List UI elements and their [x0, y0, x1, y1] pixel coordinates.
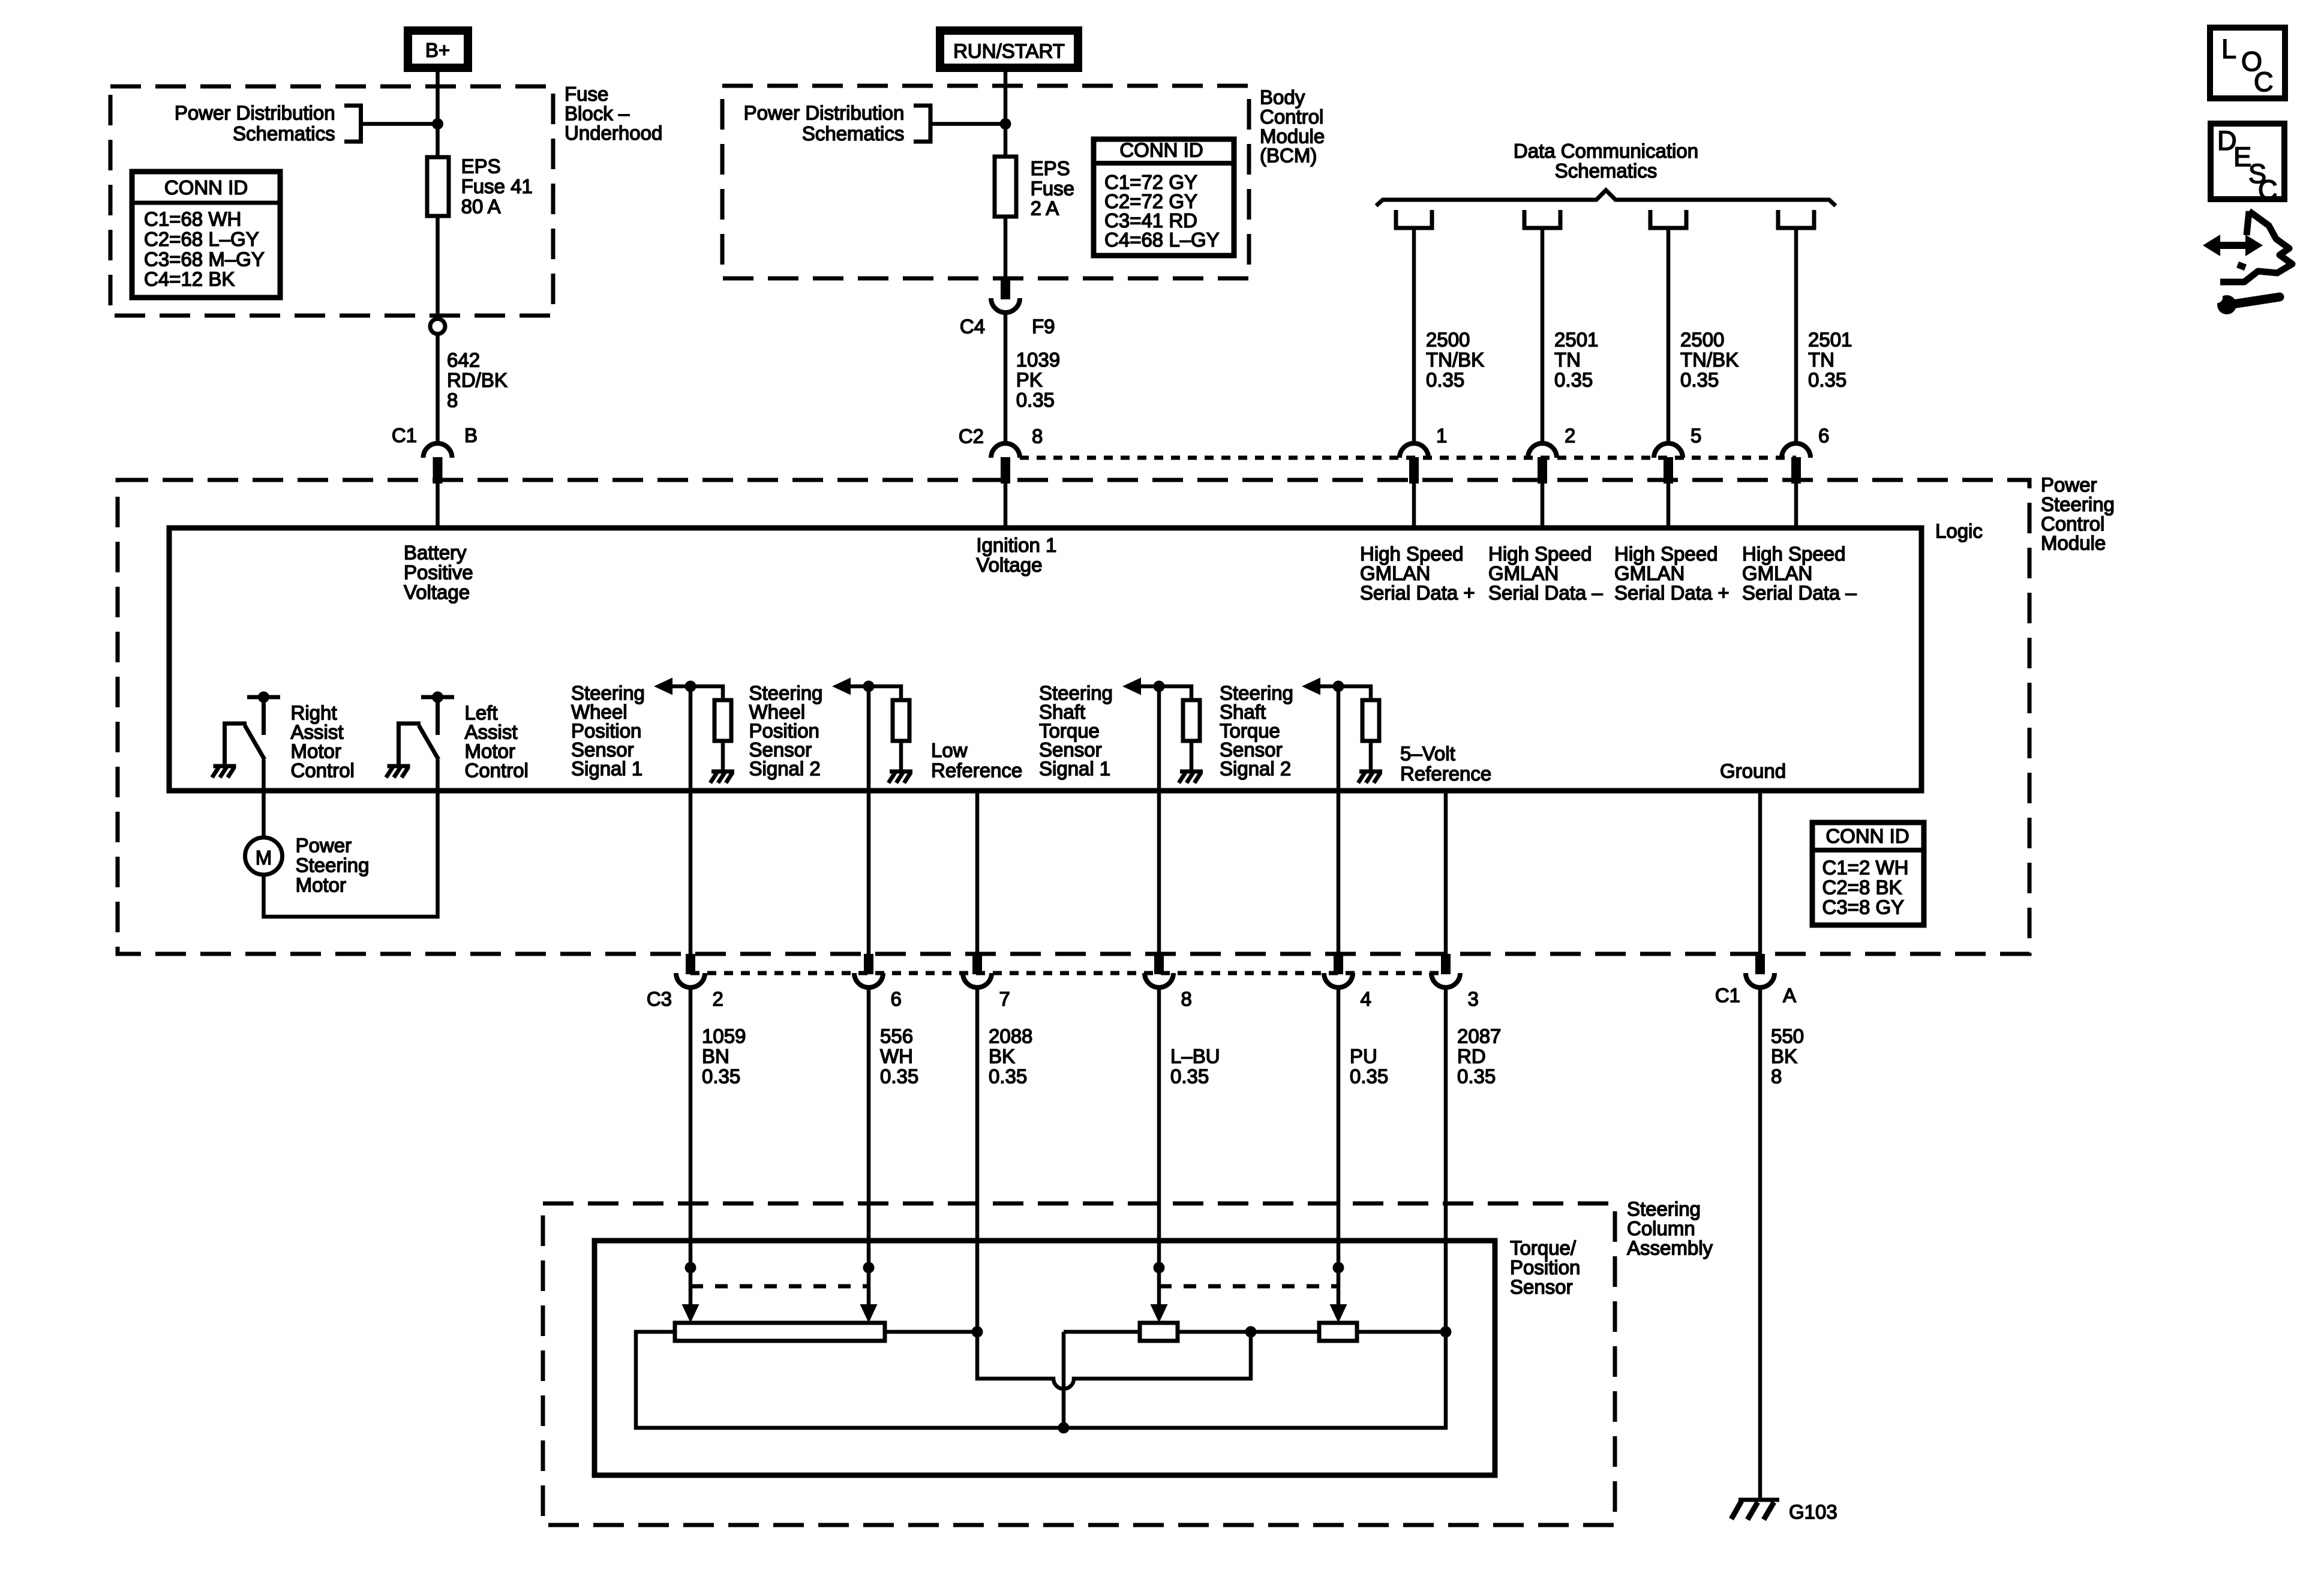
- connector C2 pin 5: [1654, 443, 1683, 458]
- svg-text:556: 556: [880, 1025, 913, 1047]
- svg-text:0.35: 0.35: [1808, 368, 1846, 391]
- svg-text:2: 2: [1565, 425, 1575, 447]
- reference bracket (BCM): [914, 106, 930, 142]
- svg-text:5: 5: [1691, 425, 1701, 447]
- svg-text:L–BU: L–BU: [1170, 1045, 1220, 1067]
- connector C1 pin A (PSCM ground): [1755, 954, 1765, 974]
- svg-text:High Speed: High Speed: [1742, 543, 1845, 565]
- svg-text:PU: PU: [1350, 1045, 1377, 1067]
- brace to data communication schematics: [1376, 190, 1836, 206]
- svg-text:Power Distribution: Power Distribution: [175, 101, 335, 124]
- ground (right assist motor control switch): [212, 766, 236, 778]
- svg-text:High Speed: High Speed: [1614, 543, 1718, 565]
- svg-text:Ground: Ground: [1720, 760, 1786, 782]
- potentiometer torque sensor track 1: [1140, 1323, 1178, 1341]
- svg-text:C2: C2: [959, 425, 984, 448]
- svg-text:B: B: [464, 424, 478, 446]
- wire steering shaft torque sensor signal 1 input: [1157, 686, 1161, 954]
- bottom return loop wire: [636, 1332, 1446, 1428]
- svg-text:Signal 1: Signal 1: [1039, 758, 1110, 780]
- connector C3 pin 2: [686, 954, 695, 974]
- wire signal 2 to position sensor wiper: [867, 987, 871, 1305]
- svg-text:Positive: Positive: [404, 562, 473, 584]
- wire signal 1 to position sensor wiper: [689, 987, 693, 1305]
- terminal to data communication bus 3: [1650, 210, 1686, 228]
- connector C3 pin 4: [1334, 954, 1343, 974]
- torque/position sensor box: [594, 1241, 1495, 1475]
- svg-text:PK: PK: [1016, 368, 1043, 391]
- svg-text:Schematics: Schematics: [233, 122, 335, 145]
- hyperlink box DESC: [2211, 124, 2284, 199]
- svg-text:BN: BN: [702, 1045, 729, 1067]
- steering wheel position sensor signal 1 input: [654, 678, 723, 701]
- svg-text:642: 642: [447, 349, 480, 371]
- wire fuse F9 to connector C4: [1004, 217, 1008, 279]
- svg-text:G103: G103: [1789, 1501, 1837, 1523]
- svg-text:EPS: EPS: [461, 155, 501, 178]
- svg-text:Control: Control: [465, 760, 529, 782]
- svg-text:2088: 2088: [989, 1025, 1032, 1047]
- svg-text:C2=68 L–GY: C2=68 L–GY: [144, 228, 259, 250]
- svg-text:0.35: 0.35: [880, 1065, 918, 1087]
- connector C3 pin 7: [972, 954, 982, 974]
- wire GMLAN 1: [1412, 228, 1416, 444]
- svg-text:Assembly: Assembly: [1627, 1236, 1713, 1259]
- svg-text:Logic: Logic: [1935, 520, 1983, 542]
- wire 5-volt feed to torque track 2 right end: [1444, 987, 1448, 1332]
- dashed box Steering Column Assembly: [543, 1203, 1615, 1525]
- wire torque signal 1 to torque sensor wiper: [1157, 987, 1161, 1305]
- svg-text:C1: C1: [1715, 984, 1740, 1007]
- svg-text:BK: BK: [989, 1045, 1015, 1067]
- svg-text:0.35: 0.35: [1170, 1065, 1209, 1087]
- svg-text:7: 7: [999, 988, 1010, 1010]
- fuse EPS Fuse 2 A: [995, 157, 1016, 217]
- svg-text:8: 8: [447, 389, 458, 411]
- svg-text:Signal 2: Signal 2: [1220, 758, 1291, 780]
- svg-text:B+: B+: [425, 39, 450, 61]
- svg-text:0.35: 0.35: [1680, 368, 1719, 391]
- svg-text:GMLAN: GMLAN: [1488, 562, 1559, 584]
- svg-text:C4: C4: [960, 316, 985, 338]
- svg-text:1059: 1059: [702, 1025, 746, 1047]
- reference bracket (fuse block): [344, 106, 361, 142]
- internal wire ignition input: [1004, 484, 1008, 529]
- svg-text:C: C: [2254, 67, 2274, 97]
- fuse EPS Fuse 41 80 A: [427, 157, 449, 216]
- svg-text:0.35: 0.35: [989, 1065, 1027, 1087]
- resistor pull (steering wheel position sensor signal 1 input): [714, 700, 731, 741]
- resistor pull (steering wheel position sensor signal 2 input): [893, 700, 909, 741]
- svg-text:3: 3: [1468, 988, 1479, 1010]
- wire 642 RD/BK 8: [436, 334, 440, 444]
- junction node on ignition feed: [1000, 118, 1011, 130]
- connector C3 pin 3: [1441, 954, 1451, 974]
- svg-text:0.35: 0.35: [1426, 368, 1464, 391]
- svg-text:High Speed: High Speed: [1360, 543, 1463, 565]
- svg-text:GMLAN: GMLAN: [1360, 562, 1430, 584]
- connector C2 pin 6: [1782, 443, 1810, 458]
- icon double arrow with wrench: [2203, 211, 2292, 314]
- wire torque signal 2 to torque sensor wiper: [1337, 987, 1341, 1305]
- svg-text:Schematics: Schematics: [1555, 160, 1658, 182]
- table CONN ID (PSCM): [1812, 822, 1924, 925]
- svg-text:C: C: [2258, 175, 2278, 205]
- svg-text:RD: RD: [1457, 1045, 1486, 1067]
- svg-text:Voltage: Voltage: [976, 554, 1042, 576]
- svg-text:TN: TN: [1554, 349, 1581, 371]
- wire GMLAN 2: [1541, 228, 1545, 444]
- svg-text:RUN/START: RUN/START: [953, 40, 1065, 62]
- wire from B+ to fuse: [436, 72, 440, 157]
- svg-text:Steering: Steering: [296, 854, 370, 876]
- center tap wire to bottom return: [1062, 1332, 1066, 1428]
- table CONN ID (fuse block): [132, 172, 280, 298]
- svg-text:Reference: Reference: [931, 760, 1022, 782]
- svg-text:6: 6: [1818, 425, 1829, 447]
- svg-text:0.35: 0.35: [1350, 1065, 1388, 1087]
- wire fuse to splice: [436, 216, 440, 319]
- svg-text:2 A: 2 A: [1031, 197, 1059, 220]
- svg-text:0.35: 0.35: [1016, 389, 1055, 411]
- svg-text:80 A: 80 A: [461, 195, 501, 217]
- svg-text:Battery: Battery: [404, 542, 467, 564]
- wire position track right end to pin 7 node: [885, 1330, 977, 1334]
- svg-text:TN: TN: [1808, 349, 1834, 371]
- wire low reference: [975, 791, 980, 954]
- svg-text:M: M: [256, 846, 272, 869]
- connector C4 pin F9 (BCM output): [1001, 278, 1010, 299]
- ground (steering shaft torque sensor signal 1 input): [1179, 772, 1203, 783]
- wire from RUN/START to fuse F9: [1004, 72, 1008, 157]
- svg-text:High Speed: High Speed: [1488, 543, 1592, 565]
- wire steering shaft torque sensor signal 2 input: [1337, 686, 1341, 954]
- wire 1039 PK 0.35: [1004, 313, 1008, 444]
- svg-text:Signal 2: Signal 2: [749, 758, 821, 780]
- svg-text:550: 550: [1771, 1025, 1804, 1047]
- svg-text:Power Distribution: Power Distribution: [744, 101, 905, 124]
- ground (steering shaft torque sensor signal 2 input): [1358, 772, 1382, 783]
- dashed box Power Steering Control Module: [118, 480, 2029, 954]
- svg-text:CONN ID: CONN ID: [164, 176, 248, 199]
- connector C3 pin 6: [864, 954, 873, 974]
- power symbol B+: [408, 31, 468, 68]
- svg-text:C1: C1: [392, 424, 417, 446]
- svg-text:WH: WH: [880, 1045, 913, 1067]
- svg-text:C1=2 WH: C1=2 WH: [1822, 857, 1909, 879]
- resistor pull (steering shaft torque sensor signal 1 input): [1183, 700, 1200, 741]
- svg-text:5–Volt: 5–Volt: [1400, 743, 1455, 765]
- svg-text:Voltage: Voltage: [404, 581, 470, 604]
- table CONN ID (BCM): [1094, 139, 1234, 256]
- ground (left assist motor control switch): [386, 766, 410, 778]
- terminal to data communication bus 1: [1396, 210, 1432, 228]
- dashed box Body Control Module: [722, 86, 1249, 278]
- svg-text:Fuse: Fuse: [1031, 177, 1074, 199]
- ground G103: [1731, 1500, 1779, 1520]
- logic box: [169, 528, 1921, 791]
- svg-text:BK: BK: [1771, 1045, 1797, 1067]
- junction node on B+ feed: [432, 118, 443, 130]
- wire ground: [1758, 791, 1762, 954]
- svg-text:C3=8 GY: C3=8 GY: [1822, 896, 1905, 918]
- dashed box Fuse Block - Underhood: [110, 86, 553, 316]
- connector C1 pin B (PSCM battery input): [424, 443, 452, 458]
- power symbol RUN/START: [940, 31, 1078, 68]
- splice ring: [430, 319, 445, 334]
- right assist motor control switch: [223, 692, 280, 767]
- svg-text:L: L: [2221, 34, 2236, 64]
- svg-text:Serial Data –: Serial Data –: [1488, 582, 1603, 604]
- wire steering wheel position sensor signal 2 input: [867, 686, 871, 954]
- svg-text:C3: C3: [647, 988, 672, 1010]
- svg-text:0.35: 0.35: [1457, 1065, 1496, 1087]
- internal wire GMLAN pin 1: [1412, 484, 1416, 529]
- dotted connector line C2: [1020, 456, 1796, 460]
- mechanical link torque sensor wipers: [1159, 1284, 1338, 1289]
- wire GMLAN 4: [1794, 228, 1798, 444]
- svg-text:Serial Data –: Serial Data –: [1742, 582, 1857, 604]
- svg-text:Motor: Motor: [296, 874, 346, 896]
- svg-text:1: 1: [1436, 425, 1447, 447]
- svg-text:Control: Control: [291, 760, 355, 782]
- svg-text:0.35: 0.35: [702, 1065, 740, 1087]
- svg-text:2087: 2087: [1457, 1025, 1501, 1047]
- hyperlink box LOC: [2210, 28, 2285, 98]
- svg-text:(BCM): (BCM): [1260, 145, 1317, 167]
- svg-text:GMLAN: GMLAN: [1614, 562, 1685, 584]
- svg-text:Underhood: Underhood: [565, 122, 662, 144]
- svg-text:C4=68 L–GY: C4=68 L–GY: [1104, 229, 1220, 251]
- svg-text:2500: 2500: [1680, 329, 1724, 351]
- left assist motor control switch: [397, 692, 454, 767]
- svg-text:C2=8 BK: C2=8 BK: [1822, 876, 1902, 899]
- svg-text:CONN ID: CONN ID: [1825, 825, 1909, 847]
- svg-text:2501: 2501: [1554, 329, 1598, 351]
- svg-text:Reference: Reference: [1400, 763, 1491, 785]
- svg-text:Serial Data +: Serial Data +: [1360, 582, 1475, 604]
- internal wire GMLAN pin 5: [1667, 484, 1671, 529]
- svg-text:2500: 2500: [1426, 329, 1470, 351]
- wire torque track 1 left end to center tap: [1064, 1330, 1140, 1334]
- steering shaft torque sensor signal 1 input: [1122, 678, 1191, 701]
- wire GMLAN 3: [1667, 228, 1671, 444]
- svg-text:Ignition 1: Ignition 1: [976, 534, 1056, 556]
- wire low reference to track junction: [975, 987, 980, 1332]
- wire right switch to motor: [262, 760, 266, 837]
- potentiometer position sensor track: [675, 1323, 885, 1341]
- ground (steering wheel position sensor signal 1 input): [710, 772, 734, 783]
- connector C3 pin 8: [1154, 954, 1164, 974]
- svg-text:Module: Module: [2041, 532, 2106, 554]
- steering shaft torque sensor signal 2 input: [1302, 678, 1371, 701]
- svg-text:Sensor: Sensor: [1510, 1275, 1573, 1298]
- terminal to data communication bus 4: [1778, 210, 1814, 228]
- svg-text:C3=68 M–GY: C3=68 M–GY: [144, 248, 265, 270]
- ground (steering wheel position sensor signal 2 input): [888, 772, 912, 783]
- connector C2 pin 2: [1528, 443, 1557, 458]
- svg-text:4: 4: [1361, 988, 1371, 1010]
- svg-text:0.35: 0.35: [1554, 368, 1593, 391]
- potentiometer torque sensor track 2: [1319, 1323, 1357, 1341]
- svg-text:8: 8: [1181, 988, 1192, 1010]
- svg-text:CONN ID: CONN ID: [1119, 139, 1203, 161]
- svg-text:EPS: EPS: [1031, 157, 1070, 179]
- svg-text:Data Communication: Data Communication: [1514, 140, 1698, 162]
- svg-text:2501: 2501: [1808, 329, 1852, 351]
- svg-text:GMLAN: GMLAN: [1742, 562, 1812, 584]
- wire steering wheel position sensor signal 1 input: [689, 686, 693, 954]
- svg-text:8: 8: [1771, 1065, 1782, 1087]
- svg-text:Fuse 41: Fuse 41: [461, 175, 533, 197]
- motor M power steering motor: [245, 837, 283, 875]
- svg-text:TN/BK: TN/BK: [1426, 349, 1484, 371]
- svg-text:TN/BK: TN/BK: [1680, 349, 1739, 371]
- svg-text:Signal 1: Signal 1: [571, 758, 642, 780]
- svg-text:Schematics: Schematics: [802, 122, 905, 145]
- svg-text:2: 2: [713, 988, 723, 1010]
- wire motor to left switch: [264, 760, 438, 917]
- wire pin 7 node to torque tracks junction (with crossover hop): [977, 1332, 1251, 1389]
- svg-text:C1=68 WH: C1=68 WH: [144, 208, 241, 230]
- svg-text:A: A: [1783, 984, 1796, 1007]
- internal wire GMLAN pin 2: [1541, 484, 1545, 529]
- wire torque track 1 right to track 2 left: [1178, 1330, 1319, 1334]
- wire 5-volt reference: [1444, 791, 1448, 954]
- wire 550 BK to ground G103: [1758, 987, 1762, 1500]
- svg-text:C4=12 BK: C4=12 BK: [144, 268, 235, 290]
- internal wire GMLAN pin 6: [1794, 484, 1798, 529]
- svg-text:Power: Power: [296, 834, 352, 857]
- svg-text:8: 8: [1032, 425, 1043, 448]
- svg-text:Low: Low: [931, 739, 968, 761]
- dotted connector line C3: [690, 971, 1446, 975]
- resistor pull (steering shaft torque sensor signal 2 input): [1362, 700, 1379, 741]
- mechanical link position sensor wipers: [690, 1284, 869, 1289]
- connector C2 pin 8 (PSCM ignition input): [991, 443, 1020, 458]
- svg-text:Serial Data +: Serial Data +: [1614, 582, 1730, 604]
- terminal to data communication bus 2: [1524, 210, 1560, 228]
- svg-text:1039: 1039: [1016, 349, 1060, 371]
- svg-text:F9: F9: [1032, 316, 1055, 338]
- svg-text:RD/BK: RD/BK: [447, 369, 508, 391]
- internal wire battery input: [436, 484, 440, 529]
- svg-text:6: 6: [891, 988, 902, 1010]
- connector C2 pin 1: [1400, 443, 1428, 458]
- steering wheel position sensor signal 2 input: [832, 678, 901, 701]
